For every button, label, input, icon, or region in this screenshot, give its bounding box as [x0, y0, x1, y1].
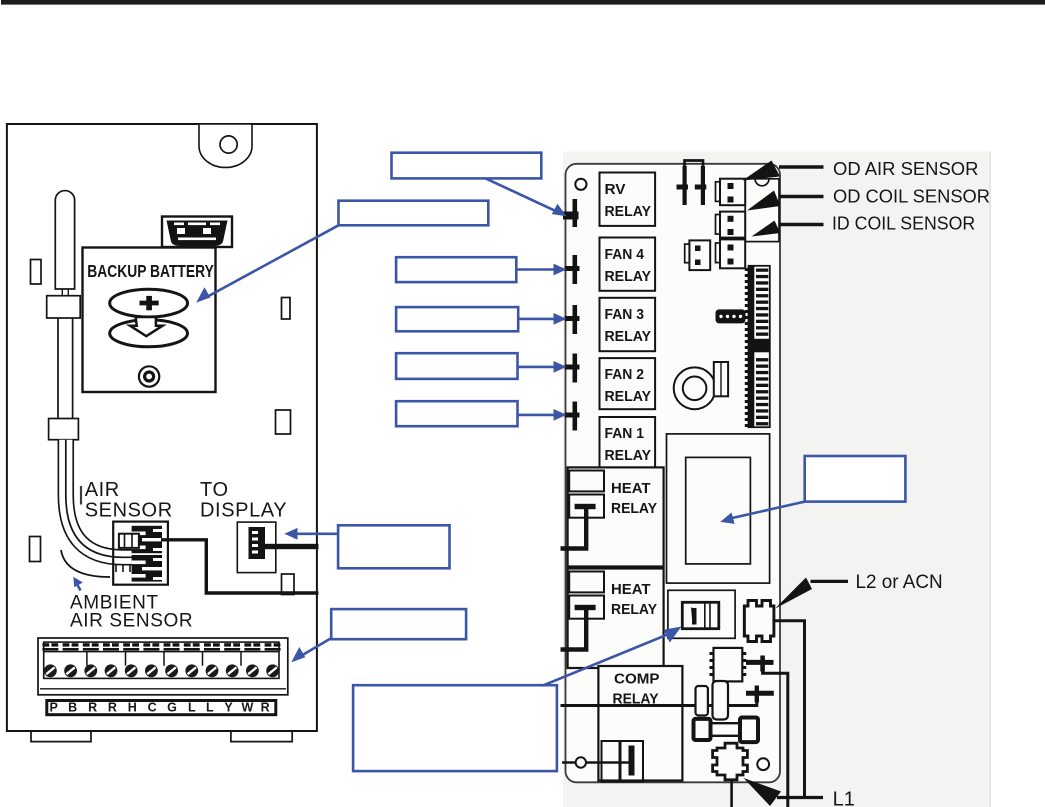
to display cable [265, 544, 319, 549]
probe neck wires [62, 289, 68, 297]
svg-text:W: W [241, 701, 253, 715]
thermostat base outer body [7, 124, 317, 731]
wall slot left upper [31, 260, 42, 285]
callout box 2 (battery) [339, 201, 489, 226]
display window inner [686, 457, 751, 564]
callout box 4 (FAN3) [396, 307, 518, 331]
svg-text:AIR: AIR [85, 479, 120, 501]
battery compartment [83, 248, 216, 393]
terminal comb teeth [42, 643, 280, 650]
wire from cross1 down [763, 668, 788, 807]
terminal strip letters [50, 701, 270, 715]
terminal cells row [44, 652, 279, 666]
svg-text:C: C [148, 701, 157, 715]
callout box 1 (RV) [392, 153, 542, 179]
FAN2 relay box [600, 358, 656, 409]
svg-text:P: P [50, 701, 58, 715]
panel feet [31, 731, 292, 742]
probe cable run [58, 318, 73, 419]
svg-text:R: R [261, 701, 270, 715]
usb slot highlights [174, 223, 220, 241]
sensor connector A [720, 179, 745, 206]
ambient sensor arrow [77, 584, 81, 591]
board edge pin RV [563, 199, 580, 431]
board hole [575, 179, 586, 190]
svg-text:H: H [128, 701, 137, 715]
board outline [566, 164, 781, 783]
capacitor 2 [713, 681, 729, 720]
eject arrow [130, 317, 163, 336]
air sensor connector comb upper [132, 526, 162, 553]
2pin connector mid [689, 240, 710, 270]
battery coin cell bottom [110, 320, 188, 347]
callout box 9 (dip switch) [353, 685, 557, 771]
pin cross 2 [746, 691, 774, 696]
terminal label strip [47, 701, 276, 715]
RV relay box [600, 173, 656, 226]
FAN4 relay box [600, 238, 656, 291]
sensor cable strand 4 [61, 550, 110, 577]
svg-text:RELAY: RELAY [611, 602, 657, 618]
wall slot right lower [282, 574, 295, 595]
sensor probe [55, 191, 74, 289]
callout box 7 (TO DISPLAY) [338, 525, 449, 568]
svg-text:BACKUP BATTERY: BACKUP BATTERY [87, 261, 214, 281]
svg-text:FAN 2: FAN 2 [605, 367, 645, 383]
air sensor mating plug [119, 534, 139, 548]
dip switch body [682, 602, 719, 628]
svg-text:OD COIL SENSOR: OD COIL SENSOR [833, 186, 990, 207]
wall slot left lower [30, 537, 41, 562]
HEAT relay 2 outer [568, 569, 664, 669]
terminal block inner [44, 642, 279, 678]
sensor cable divider [66, 440, 136, 558]
svg-text:DISPLAY: DISPLAY [200, 500, 287, 522]
mounting hole [220, 136, 237, 153]
terminal screws [44, 664, 279, 677]
capacitor 1 [696, 686, 708, 716]
jumper pin left [677, 166, 707, 205]
board edge pin FAN1 [573, 402, 578, 431]
svg-text:RELAY: RELAY [605, 389, 652, 405]
svg-text:TO: TO [200, 479, 229, 501]
dip switch outer [668, 590, 735, 638]
board edge pin FAN3 [573, 305, 578, 334]
jumper pin right [701, 166, 705, 205]
svg-text:OD AIR SENSOR: OD AIR SENSOR [833, 158, 978, 179]
L2 black arrow [775, 578, 812, 609]
cable tick [80, 486, 82, 505]
FAN1 relay box [600, 417, 656, 468]
sensor connector C [720, 239, 745, 268]
battery plus [140, 301, 159, 306]
svg-text:RV: RV [605, 182, 626, 198]
mounting tab [199, 125, 252, 168]
svg-text:RELAY: RELAY [611, 501, 657, 517]
svg-text:ID COIL SENSOR: ID COIL SENSOR [832, 213, 975, 234]
wire L1 down [730, 779, 733, 807]
svg-text:L1: L1 [833, 789, 855, 807]
FAN3 relay box [600, 298, 656, 351]
svg-text:Y: Y [224, 701, 233, 715]
svg-text:RELAY: RELAY [605, 448, 652, 464]
buzzer [674, 367, 716, 409]
svg-text:HEAT: HEAT [611, 481, 651, 497]
svg-text:L2 or ACN: L2 or ACN [856, 572, 943, 593]
svg-text:R: R [88, 701, 97, 715]
sensor connector B [720, 212, 745, 238]
probe clamp upper [47, 296, 80, 318]
svg-text:FAN 3: FAN 3 [605, 307, 645, 323]
display window outer [667, 434, 770, 583]
COMP relay outer [598, 666, 682, 781]
callout box 6 (FAN1) [396, 401, 517, 426]
svg-text:RELAY: RELAY [605, 329, 652, 345]
terminal block outer [38, 638, 288, 695]
black arrow OD COIL [747, 191, 780, 211]
top black bar [1, 0, 1045, 5]
wire air sensor to display [161, 540, 319, 593]
IC box with notch [745, 179, 779, 242]
svg-text:RELAY: RELAY [605, 269, 652, 285]
svg-text:L: L [188, 701, 196, 715]
callout box 10 (display window) [805, 456, 906, 502]
svg-text:FAN 4: FAN 4 [605, 247, 645, 263]
wall slot right upper [282, 298, 291, 320]
battery coin cell top [110, 289, 188, 317]
svg-text:RELAY: RELAY [605, 204, 652, 220]
svg-text:FAN 1: FAN 1 [605, 426, 645, 442]
board edge pin FAN4 [573, 255, 578, 284]
fuse [711, 723, 741, 736]
svg-text:HEAT: HEAT [611, 582, 651, 598]
pin cross 1 [746, 660, 774, 665]
top jumper bracket [685, 161, 704, 182]
small component near buzzer [714, 362, 728, 396]
ribbon marks [116, 565, 130, 573]
usb connector body [167, 221, 228, 247]
callout box 5 (FAN2) [396, 353, 517, 379]
L1 connector [713, 743, 748, 780]
black arrow ID COIL [752, 221, 781, 237]
edge connector strip [749, 266, 770, 427]
usb connector outline [162, 217, 232, 248]
air sensor connector outline [113, 522, 168, 585]
board edge pin FAN2 [573, 354, 578, 383]
L2 connector [743, 605, 748, 638]
L1 black arrow [744, 778, 782, 806]
black arrow OD AIR [743, 161, 781, 181]
bottom connector pair [602, 741, 620, 782]
svg-text:L: L [206, 701, 214, 715]
terminal block lower line [40, 688, 286, 690]
svg-text:G: G [167, 701, 177, 715]
svg-text:SENSOR: SENSOR [85, 500, 173, 522]
callout box 8 (terminal block) [331, 609, 466, 639]
HEAT relay 1 outer [568, 467, 664, 566]
board hole bottom right [757, 758, 769, 770]
battery screw [139, 366, 159, 386]
wall slot right mid [276, 410, 291, 434]
to display connector body [249, 527, 266, 559]
comp wire [561, 695, 757, 706]
4pin header [716, 309, 746, 323]
board hole bottom left + wire [562, 761, 634, 764]
svg-text:AIR SENSOR: AIR SENSOR [70, 611, 193, 632]
to display connector outline [237, 522, 275, 573]
svg-text:B: B [68, 701, 77, 715]
air sensor connector comb lower [132, 555, 162, 582]
callout box 3 (FAN4) [396, 257, 516, 282]
sensor cable bundle outline [66, 440, 136, 558]
svg-text:COMP: COMP [614, 672, 660, 688]
wire from L2 down [774, 621, 805, 798]
small IC [714, 648, 743, 682]
gray board panel background [563, 152, 991, 807]
svg-text:R: R [108, 701, 117, 715]
probe clamp lower [49, 419, 79, 440]
